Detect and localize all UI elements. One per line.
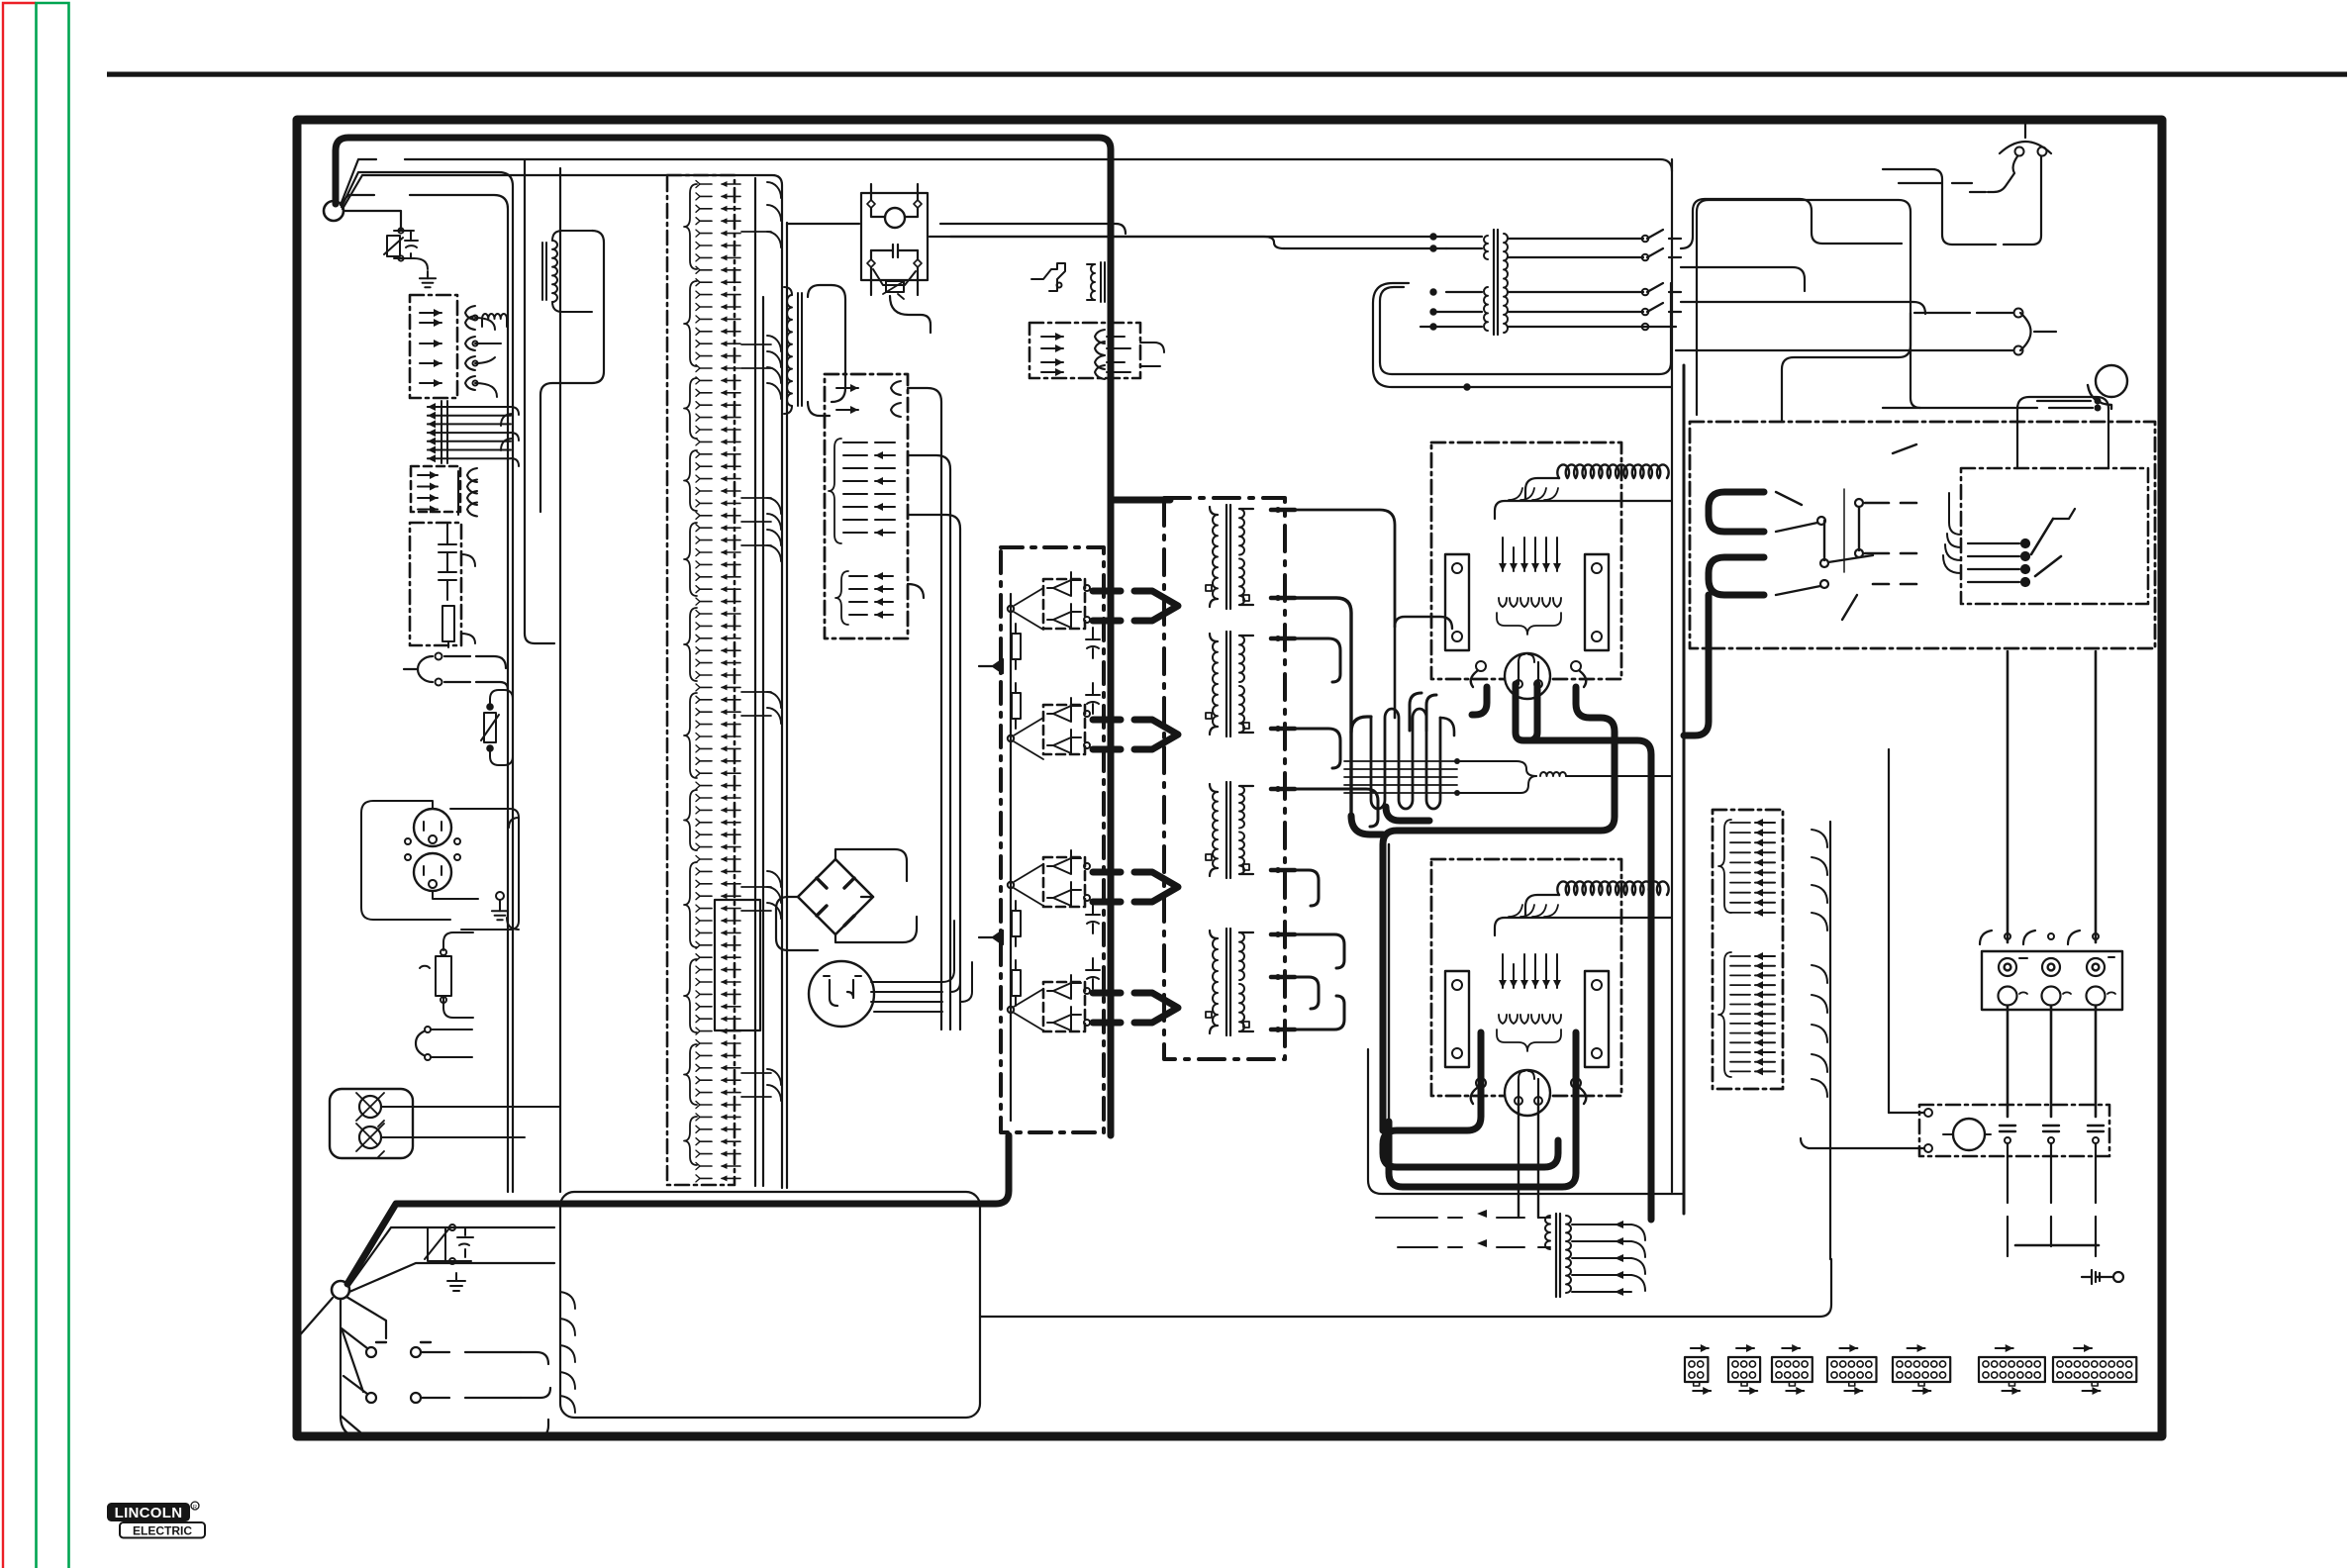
varistor MOV2 with capacitor [425, 1225, 473, 1264]
wire receptacle loop [450, 809, 519, 930]
rf choke L1 [482, 314, 507, 327]
wire selector feeds [2017, 397, 2108, 468]
wire choke output [1457, 761, 1671, 793]
control PCB1 (dash-dot) with connectors [1431, 442, 1671, 699]
capacitor C1/C2 and resistor R1 on S4 [439, 523, 475, 647]
capacitor-motor box (dash-dot) [1801, 1105, 2109, 1156]
choke L2 (output) [1344, 627, 1460, 809]
current transformer CT1 [1087, 262, 1109, 302]
ground [447, 1273, 465, 1291]
wire input fan [341, 159, 1672, 1192]
thermostat TP1 [1883, 120, 2051, 403]
transformer T2 [784, 285, 845, 416]
wire bold secondary bus [1111, 500, 1395, 1032]
switch SW4 (aux contact) [1031, 263, 1065, 291]
wire bold choke to PCB2 [1351, 617, 1452, 834]
connector S3 forks [458, 468, 477, 517]
wire P1 leads [475, 318, 513, 450]
harness connectors J10-J16 [1685, 1344, 2136, 1395]
IGBT modules Q1-Q4 (dash-dot box) [979, 547, 1104, 1132]
wire caps to ground [2005, 1137, 2099, 1256]
wire bold output bus [347, 1135, 1009, 1284]
selector switch SW3 (dash-dot boxes) [1690, 422, 2155, 648]
wire fan circuit loop [1697, 200, 1911, 422]
svg-text:ELECTRIC: ELECTRIC [133, 1524, 192, 1538]
wire T3 primary [930, 234, 1482, 330]
connector S2 (lead bundle) [428, 401, 519, 466]
wire node B fan [297, 1227, 554, 1437]
wire PCB2 leads bold [1368, 1032, 1683, 1218]
transformer T3 (fan/aux) [1484, 230, 1508, 335]
wire HF leads (bold pairs) [1093, 591, 1178, 1023]
wire mid tie lines [787, 224, 1126, 234]
svg-text:R: R [193, 1505, 197, 1511]
wire T8 primary [1376, 1218, 1462, 1247]
ground [492, 892, 508, 920]
wire TB1 hooks [1980, 931, 2099, 944]
resistor R2 [420, 932, 473, 1018]
ground lug [2082, 1270, 2123, 1284]
wire routing box B [560, 1192, 980, 1418]
transformer T1 [540, 231, 604, 512]
wire bold input bus [336, 138, 1111, 1135]
switch SW1 (pilot) [416, 1027, 472, 1060]
connector J3 (dash-dot box) [1029, 323, 1164, 379]
ground [420, 271, 436, 287]
wire PCB1 leads [1383, 684, 1651, 1220]
wire strip feeders [755, 178, 763, 1186]
terminal strip TS1 (dash-dot) with lead ticks [667, 175, 781, 1185]
thermistor RT1 [481, 690, 513, 765]
node B (output splice) [332, 1281, 349, 1299]
wire vertical feeders [525, 160, 560, 1192]
node A (input splice) [324, 201, 343, 221]
spark gap G1 (points) [809, 921, 972, 1027]
wire T3 secondary fan-feed [1508, 199, 1925, 330]
wire loop bundle [1373, 283, 1671, 390]
transformer T8 (aux supply) [1477, 1210, 1645, 1297]
connector plug P1 (dash-dot box) [410, 295, 457, 398]
wire J2 leads [890, 296, 960, 1029]
diode bridge D1 [776, 849, 917, 950]
connector plug P3 (dashed box) [411, 466, 460, 514]
pilot lamps PL1 PL2 [330, 1089, 560, 1158]
connector receptacle S1 forks [465, 306, 478, 390]
svg-text:LINCOLN: LINCOLN [115, 1505, 183, 1521]
receptacle 115V duplex [361, 801, 478, 920]
snubber PCB (MOV/cap unit) [861, 184, 928, 299]
varistor MOV1 with capacitor [384, 228, 428, 269]
fan motor M1 [1883, 313, 2127, 411]
connector J2 (dash-dot box) [825, 374, 908, 638]
wire TB1 feeds [2008, 651, 2096, 1117]
main transformers T4-T7 (dash-dot box) [1164, 498, 1285, 1059]
thermostat TP2 [1676, 309, 2056, 355]
connector P4 (dash-dot box) [410, 523, 461, 645]
output terminal block TB1 [1982, 951, 2122, 1010]
thermostat CR1 contacts [404, 653, 508, 691]
control PCB2 (dash-dot) with connectors [1431, 859, 1671, 1116]
wire J5 risers [1830, 749, 1889, 1259]
wire routing right [980, 1259, 1831, 1317]
wire right verticals [1672, 159, 1709, 1214]
switch SW2 (power toggle) [341, 1328, 550, 1437]
Lincoln Electric logo [107, 1502, 205, 1538]
connector J5 (dash-dot box) [1713, 810, 1827, 1097]
